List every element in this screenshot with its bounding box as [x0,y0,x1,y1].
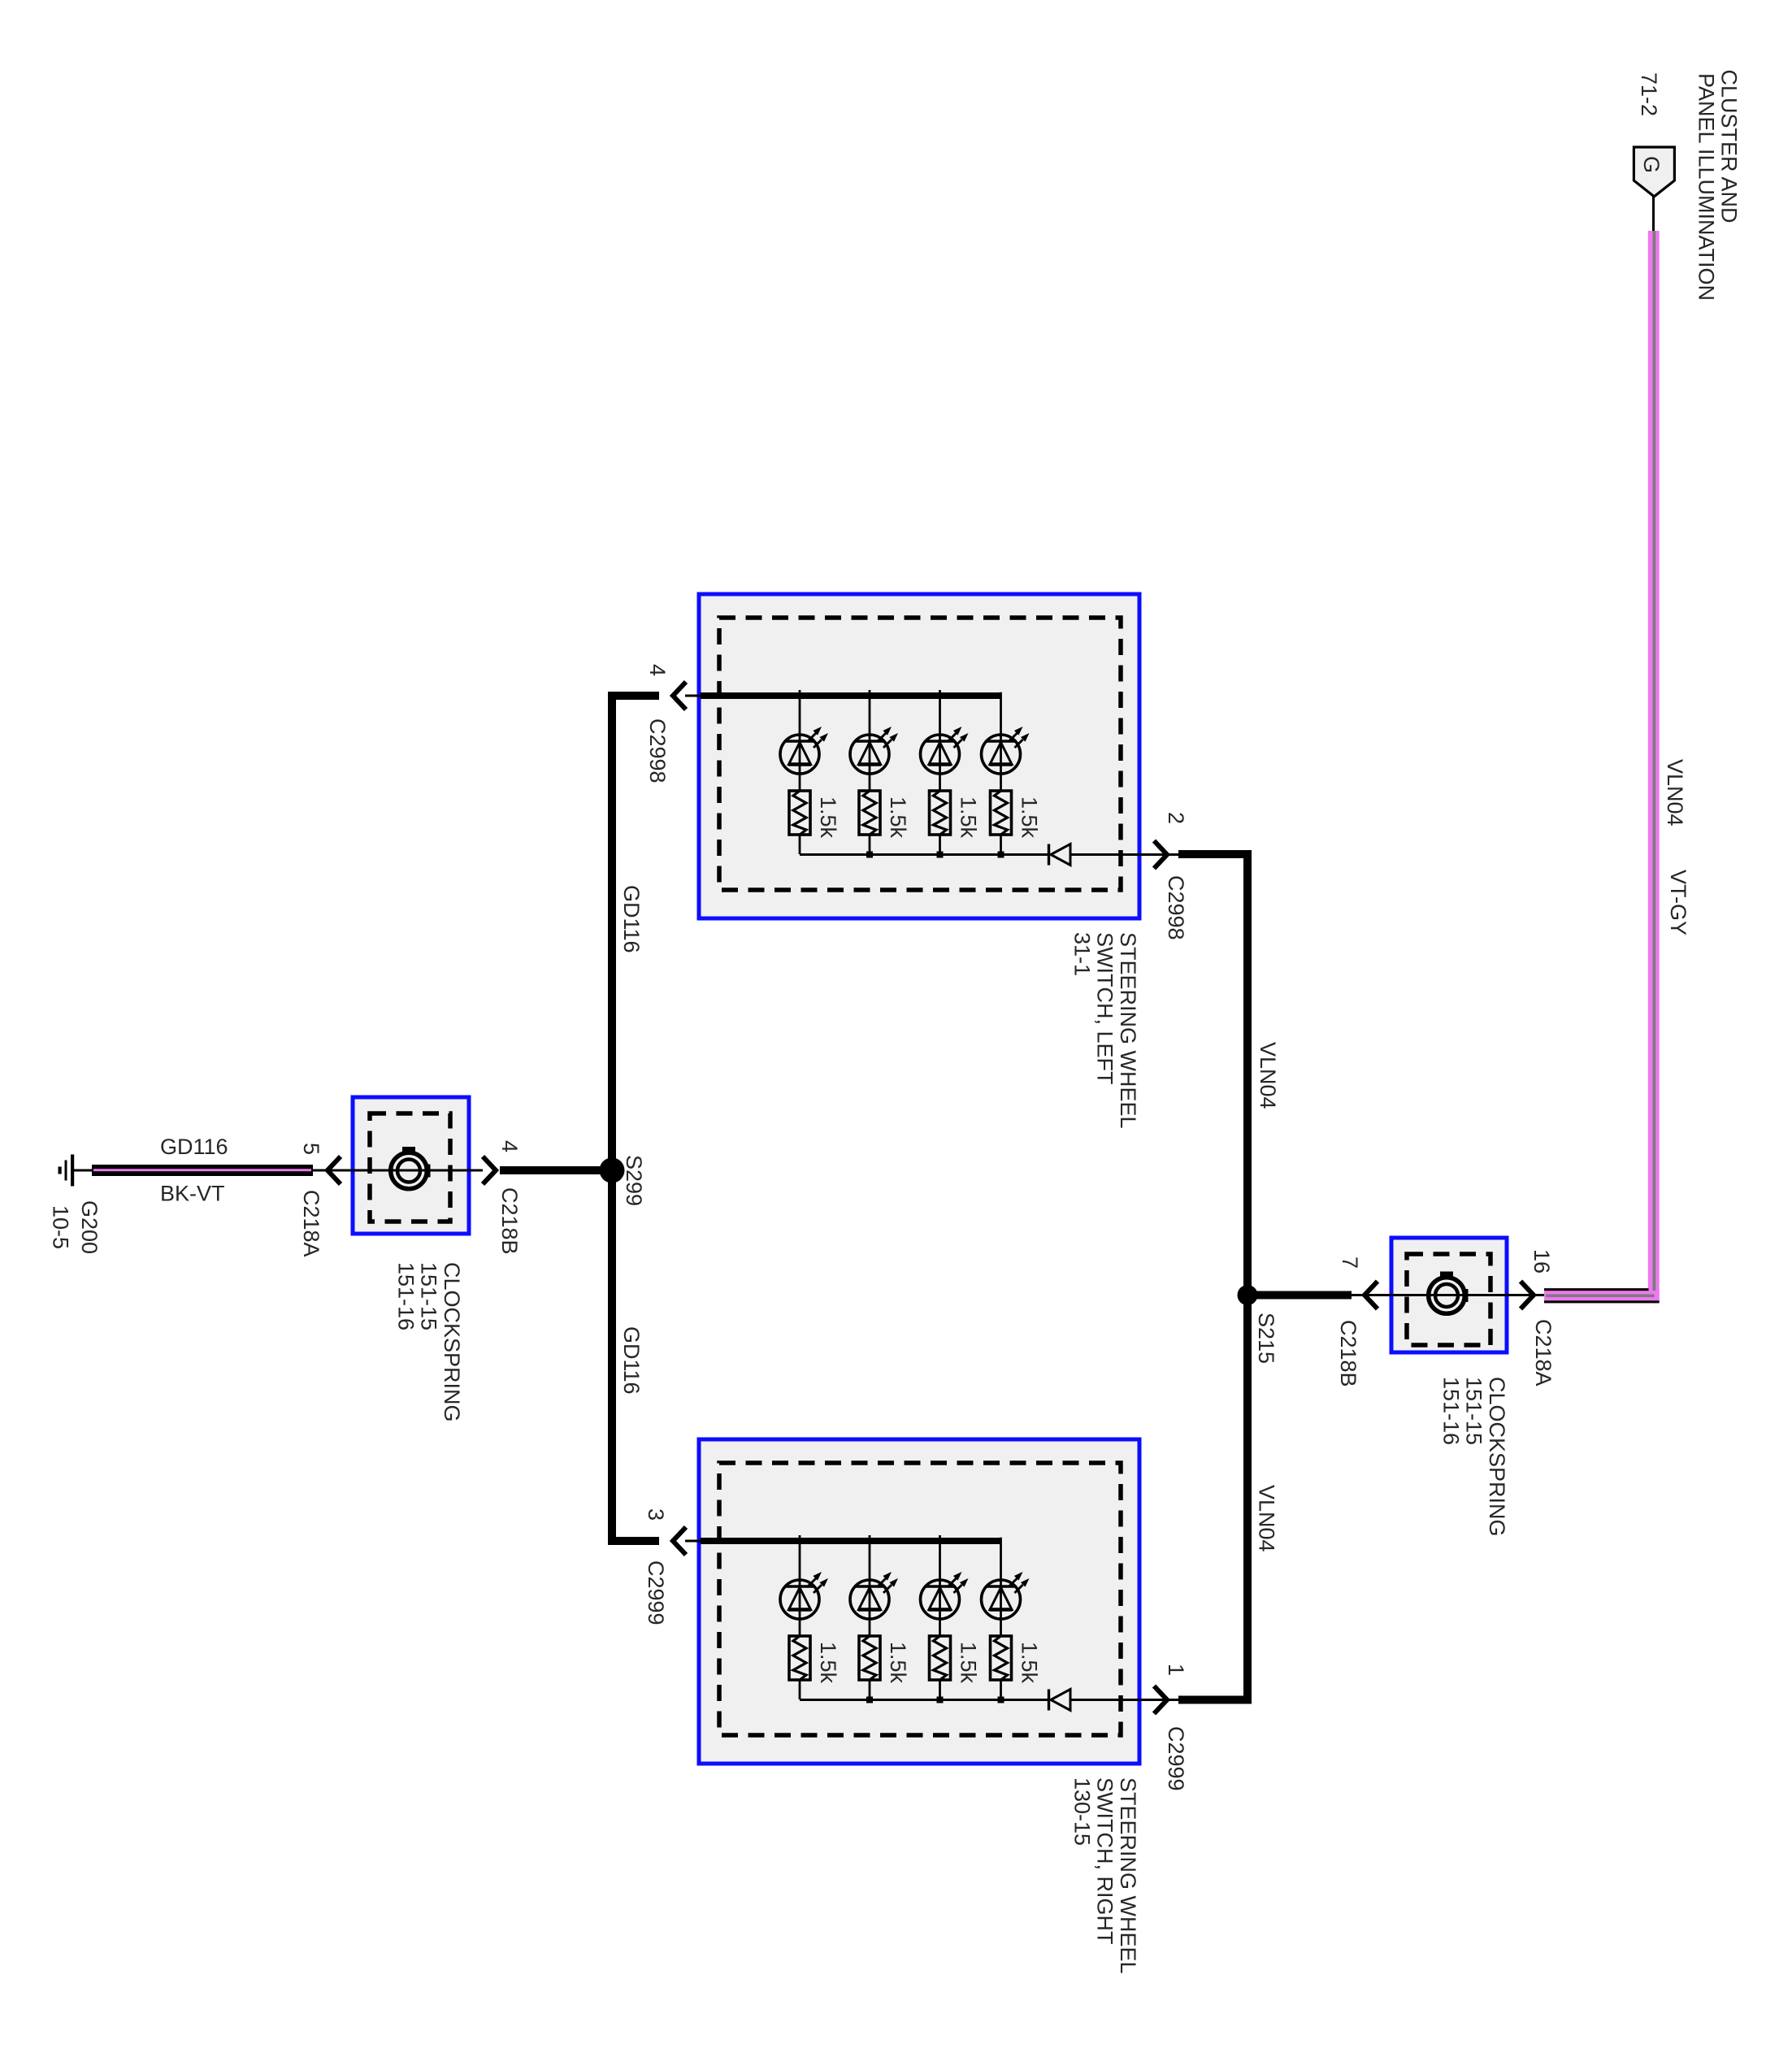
svg-text:C2998: C2998 [1164,875,1188,940]
pin 3 arrow [673,1527,686,1555]
label CLOCKSPRING 151-15 151-16 (left) [393,1262,464,1422]
svg-text:S299: S299 [622,1155,646,1206]
thin lead pin 4 into box [685,695,704,697]
splice S215 [1238,1285,1258,1305]
svg-text:SWITCH, RIGHT: SWITCH, RIGHT [1093,1777,1117,1944]
wire VLN04 VT-GY vertical run [1648,231,1660,1301]
svg-text:4: 4 [645,664,670,676]
pin 16 arrow [1521,1282,1534,1309]
thin lead diode to pin 2 [1070,853,1178,856]
top bus (left box) [701,692,1001,699]
svg-text:GD116: GD116 [619,1326,644,1395]
wire VLN04 riser between switches and S215 [1178,854,1247,1700]
junction dot (left box, D4) [998,852,1004,858]
label CLOCKSPRING 151-15 151-16 (right) [1438,1377,1509,1537]
svg-text:7: 7 [1338,1256,1362,1269]
svg-text:GD116: GD116 [619,885,644,953]
wire GD116 BK-VT to ground [92,1165,313,1176]
bottom bus (right box) [800,1699,1048,1701]
LED D3 with 1.5k resistor (left box) [921,690,981,854]
svg-text:151-15: 151-15 [1462,1377,1486,1445]
LED D4 with 1.5k resistor (left box) [982,690,1042,854]
svg-text:VLN04: VLN04 [1663,759,1687,827]
svg-text:VLN04: VLN04 [1256,1042,1280,1109]
svg-text:G: G [1639,156,1664,173]
steering wheel switch left: blue component box [699,594,1139,918]
pin 1 arrow [1154,1686,1167,1714]
LED D7 with 1.5k resistor (right box) [921,1535,981,1699]
wire through clockspring (left) [340,1170,483,1172]
svg-text:C2999: C2999 [644,1560,668,1625]
svg-text:CLUSTER AND: CLUSTER AND [1717,70,1742,223]
diode (left box) [1049,844,1071,866]
svg-text:130-15: 130-15 [1070,1777,1094,1846]
svg-text:C2998: C2998 [645,718,670,783]
svg-text:CLOCKSPRING: CLOCKSPRING [440,1262,464,1422]
svg-text:STEERING WHEEL: STEERING WHEEL [1116,932,1140,1129]
wire VLN04 VT-GY horizontal segment to C218A pin 16 [1544,1288,1660,1303]
splice S299 [600,1158,625,1183]
thin lead pin 5 [313,1170,340,1172]
junction dot (right box, D8) [998,1697,1004,1703]
svg-text:31-1: 31-1 [1070,932,1094,976]
svg-text:4: 4 [497,1140,522,1152]
LED D5 with 1.5k resistor (right box) [780,1535,840,1699]
bottom bus (left box) [800,853,1048,856]
pin 4 wire (left box) [612,692,659,700]
svg-text:CLOCKSPRING: CLOCKSPRING [1485,1377,1509,1537]
svg-text:C218B: C218B [497,1187,522,1255]
wire through clockspring (right) [1352,1294,1521,1296]
LED D8 with 1.5k resistor (right box) [982,1535,1042,1699]
title CLUSTER AND PANEL ILLUMINATION [1694,70,1741,302]
svg-text:C218A: C218A [299,1190,323,1257]
svg-text:SWITCH, LEFT: SWITCH, LEFT [1093,932,1117,1085]
diode (right box) [1049,1690,1071,1711]
lead from G connector [1652,197,1655,232]
wire S299 to clockspring pin 4 [500,1166,612,1174]
svg-text:VLN04: VLN04 [1255,1485,1279,1552]
steering wheel switch right: dashed inner box [719,1463,1121,1735]
clockspring (right) blue component box [1391,1238,1507,1352]
patch bus end tick (right box) [997,1533,1004,1538]
label STEERING WHEEL SWITCH, RIGHT 130-15 [1070,1777,1140,1974]
junction dot (left box, D2) [866,852,873,858]
svg-text:2: 2 [1164,812,1188,824]
svg-text:PANEL ILLUMINATION: PANEL ILLUMINATION [1694,73,1718,301]
off-page connector G [1634,147,1674,197]
junction dot (right box, D6) [866,1697,873,1703]
wire from S215 to pin 7 [1247,1291,1352,1300]
ground G200 [59,1155,93,1187]
pin 3 wire (right box) [612,1537,659,1545]
top bus (right box) [701,1538,1001,1544]
svg-text:VT-GY: VT-GY [1666,870,1690,935]
thin lead pin 3 into box [685,1540,704,1543]
pin 7 arrow [1365,1282,1378,1309]
pin 4 arrow [673,682,686,710]
svg-text:C2999: C2999 [1164,1726,1188,1791]
svg-text:C218A: C218A [1531,1319,1556,1387]
pin 4 arrow (left clockspring) [483,1157,496,1184]
LED D1 with 1.5k resistor (left box) [780,690,840,854]
patch bus end tick (left box) [997,688,1004,692]
svg-text:10-5: 10-5 [49,1205,73,1249]
svg-text:71-2: 71-2 [1637,72,1661,116]
LED D6 with 1.5k resistor (right box) [850,1535,910,1699]
thin lead diode to pin 1 [1070,1699,1178,1701]
svg-text:1: 1 [1164,1664,1188,1676]
thin lead pin16 to wire [1521,1294,1544,1296]
svg-text:151-16: 151-16 [1438,1377,1463,1445]
svg-text:STEERING WHEEL: STEERING WHEEL [1116,1777,1140,1974]
svg-text:C218B: C218B [1336,1320,1360,1387]
clockspring coil (right) [1429,1272,1469,1314]
svg-text:5: 5 [299,1143,323,1155]
svg-text:G200: G200 [77,1200,102,1254]
label STEERING WHEEL SWITCH, LEFT 31-1 [1070,932,1140,1129]
svg-text:16: 16 [1529,1249,1554,1274]
wire GD116 riser (pin 4 to pin 3 via S299) [612,696,659,1541]
svg-text:S215: S215 [1254,1313,1278,1364]
LED D2 with 1.5k resistor (left box) [850,690,910,854]
pin 5 arrow (left clockspring) [328,1157,341,1184]
clockspring (left) dashed inner box [370,1113,450,1222]
svg-text:GD116: GD116 [160,1135,228,1159]
clockspring (right) dashed inner box [1407,1254,1490,1345]
clockspring coil (left) [391,1147,431,1189]
junction dot (right box, D7) [937,1697,944,1703]
svg-text:3: 3 [644,1508,668,1521]
clockspring (left) blue component box [353,1097,469,1234]
junction dot (left box, D3) [937,852,944,858]
steering wheel switch left: dashed inner box [719,618,1121,890]
steering wheel switch right: blue component box [699,1439,1139,1764]
svg-text:151-16: 151-16 [393,1262,418,1330]
pin 2 arrow [1154,841,1167,869]
svg-text:BK-VT: BK-VT [160,1182,225,1206]
svg-text:151-15: 151-15 [417,1262,441,1330]
